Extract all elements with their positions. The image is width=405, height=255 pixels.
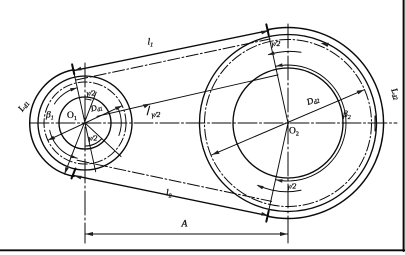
beta1 wrap-angle arc lower segment: [50, 130, 78, 158]
belt outer arc around pulley 1: [30, 70, 74, 177]
auxiliary line O1-E parallel to belt span: [97, 75, 278, 116]
pulley 1 pitch circle Dd1: [44, 82, 126, 164]
tangent tick big pulley bottom: [266, 211, 268, 222]
wire: vertical center line through O2: [287, 24, 289, 243]
diameter arrow Dd1: [48, 106, 122, 141]
border right: [403, 0, 405, 251]
svg-text:Dd2: Dd2: [304, 93, 320, 108]
arrowheads l2 dimension: [74, 176, 82, 180]
gamma/2 arc top of pulley 2: [269, 51, 302, 54]
svg-text:Ld1: Ld1: [15, 98, 31, 115]
tick on center line at pitch circle right: [374, 116, 376, 131]
svg-text:γ/2: γ/2: [87, 89, 96, 98]
rotation arrow on pulley 2 pitch circle: [321, 43, 329, 47]
svg-text:A: A: [181, 220, 188, 230]
pulley 1 rim circle: [38, 76, 132, 170]
svg-text:Ld2: Ld2: [388, 86, 403, 102]
svg-text:γ/2: γ/2: [89, 134, 98, 143]
belt bottom span outer line: [74, 176, 269, 216]
tangent tick small pulley bottom: [72, 169, 76, 179]
belt outer arc around pulley 2: [269, 27, 384, 218]
wire: vertical center line through O1: [84, 63, 86, 243]
leader line lower gamma/2 at O1: [85, 123, 121, 157]
dimension A extension right: [287, 226, 289, 243]
border bottom: [0, 249, 405, 251]
svg-text:O2: O2: [289, 127, 299, 138]
pulley 2 tangent radius line bottom: [266, 123, 288, 222]
dimension A extension left: [84, 226, 86, 243]
dimension A line with arrows: [85, 233, 288, 235]
tangent tick big pulley top: [266, 24, 268, 35]
center dot O1: [84, 122, 86, 124]
pulley 1 inner circle: [59, 97, 111, 149]
pulley 2 tangent radius line top: [266, 24, 288, 123]
diameter arrow Dd2: [212, 90, 364, 155]
pulley 1 tangent radius line top: [72, 64, 96, 171]
gamma/2 arc bottom of pulley 1: [85, 139, 102, 146]
wire: horizontal center line O1-O2: [30, 122, 397, 124]
gamma/2 arc top of pulley 1: [85, 99, 91, 100]
svg-text:β2: β2: [342, 110, 351, 121]
svg-text:Dd1: Dd1: [89, 102, 104, 115]
svg-text:l2: l2: [166, 189, 172, 200]
svg-text:β1: β1: [45, 111, 54, 122]
pulley 2 rim circle: [200, 35, 377, 212]
svg-text:l1: l1: [148, 38, 154, 49]
tangent tick small pulley top: [72, 64, 74, 74]
svg-text:γ/2: γ/2: [152, 110, 161, 119]
beta1 wrap-angle arc (r=36) upper segment: [54, 88, 77, 104]
pulley 2 inner circle: [233, 68, 343, 178]
belt top span pitch line: [76, 39, 270, 80]
svg-text:γ/2: γ/2: [272, 39, 281, 48]
svg-text:γ/2: γ/2: [288, 182, 297, 191]
center dot O2: [287, 122, 289, 124]
belt top span outer line: [74, 31, 269, 71]
beta2 wrap-angle arc (r=58): [276, 65, 347, 181]
gamma/2 marker arc near O1 (r=36): [119, 110, 122, 136]
pulley 2 pitch circle Dd2: [205, 40, 372, 207]
belt bottom span pitch line: [77, 160, 271, 201]
gamma/2 arc bottom of pulley 2: [258, 185, 301, 191]
arrowheads l1 dimension: [74, 67, 82, 71]
svg-text:O1: O1: [67, 111, 77, 122]
pulley 1 tangent radius line bottom: [65, 92, 97, 174]
